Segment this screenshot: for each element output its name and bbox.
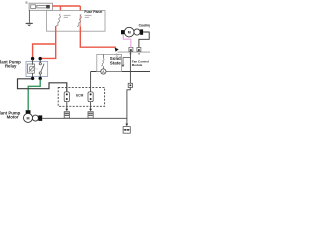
wire light red through F3 [79, 14, 81, 26]
terminal 1 [129, 48, 133, 55]
connector plug right [88, 112, 93, 118]
relay link dash [35, 68, 37, 70]
wire motor return rail [42, 117, 127, 119]
wire ECM right down [90, 102, 92, 109]
relay K1 Coolant Pump Relay [26, 61, 48, 76]
wire pink motor to terminal1 [123, 34, 131, 47]
svg-text:Motor: Motor [7, 115, 19, 120]
terminal B+ arrow [115, 48, 119, 52]
connector ECM pin left [64, 92, 69, 102]
connector plug bottom right [125, 124, 128, 127]
ground arrow in module [123, 57, 131, 65]
svg-text:Module: Module [132, 63, 143, 67]
solid state box [97, 54, 122, 71]
wire black relay to ECM [18, 79, 67, 92]
svg-text:M: M [128, 31, 131, 35]
wire terminal1 down [129, 51, 131, 83]
svg-text:Fuse Panel: Fuse Panel [84, 10, 102, 14]
wire red F2 output to relay [33, 26, 56, 58]
connector plug left [64, 112, 69, 118]
node relay pin 30 [39, 57, 42, 60]
wire green relay to coolant pump motor [28, 80, 40, 111]
svg-text:ECM: ECM [76, 93, 83, 97]
connector plug mid right [128, 83, 132, 87]
ECM dashed box [58, 87, 104, 106]
terminal 2 [137, 48, 141, 55]
ground [26, 10, 33, 23]
svg-text:M: M [27, 116, 30, 120]
node relay pin 86 [31, 57, 34, 60]
relay contact [39, 60, 44, 78]
node A circle [101, 69, 106, 74]
svg-text:Cooling: Cooling [139, 24, 150, 28]
svg-text:State: State [110, 61, 122, 66]
battery fuse F1 top-left [29, 3, 52, 10]
star mark [25, 1, 28, 4]
fuse F3 in panel [77, 14, 81, 26]
wire jog down to bottom [127, 88, 130, 125]
connector ECM pin right [88, 92, 93, 102]
fuse panel box [47, 11, 106, 32]
node relay pin 87 [39, 77, 42, 80]
wire red battery to fuse panel [53, 6, 81, 14]
node relay pin 85 [31, 77, 34, 80]
wire red F3 output to module B+ [80, 26, 115, 48]
wire ECM left down [66, 102, 68, 109]
fan control module top rail [118, 51, 150, 53]
fuse F2 in panel [56, 14, 60, 26]
svg-text:Relay: Relay [5, 64, 17, 69]
relay coil [28, 60, 35, 78]
wire module bottom rail [91, 71, 150, 73]
wire black motor to terminal2 [139, 32, 149, 48]
wire ECM right up to solid state [90, 72, 92, 92]
fuse element in solid state box [101, 54, 104, 69]
